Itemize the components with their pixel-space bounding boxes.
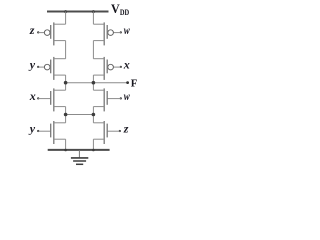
pmos z (row 1 left) [44,22,65,45]
nmos w (row 3 right) [93,88,107,111]
node bullet y row4 left [37,130,39,132]
wire pmos w drain to pmos x source [92,41,94,59]
ground symbol [71,150,88,164]
junction node F right [92,81,96,85]
wire gate lead x row2 [113,66,121,68]
svg-text:w: w [124,89,131,103]
wire gate lead x row3 [38,98,51,100]
wire pmos y drain down through node F [65,75,67,90]
nmos y (row 4 left) [51,121,66,144]
wire gate lead z row1 [38,32,44,34]
node bullet w row1 right [120,31,122,33]
pmos x (row 2 right) [93,57,113,80]
wire cross link between nmos branches [66,114,94,116]
svg-text:x: x [29,89,36,103]
node bullet x row2 right [120,66,122,68]
wire nmos x source down through cross link [65,107,67,123]
junction node F left [64,81,68,85]
svg-text:w: w [124,23,131,37]
svg-text:F: F [131,77,138,89]
wire nmos w source down through cross link [92,107,94,123]
junction ground rail left [64,149,67,152]
ground rail [48,149,110,151]
svg-text:V: V [111,1,120,16]
junction cross link left [64,113,68,117]
wire gate lead y row2 [38,66,44,68]
svg-text:z: z [29,23,35,37]
nmos x (row 3 left) [51,88,66,111]
svg-text:y: y [28,58,36,72]
svg-text:z: z [123,122,129,136]
wire nmos y source to ground rail [65,139,67,150]
terminal bullet F [126,81,129,84]
wire VDD to pmos w source [92,12,94,25]
wire gate lead y row4 [38,130,51,132]
junction on VDD rail left [64,10,67,13]
power rail VDD [47,11,109,13]
node bullet y row2 left [37,66,39,68]
nmos z (row 4 right) [93,121,107,144]
pmos y (row 2 left) [44,57,65,80]
wire pmos z drain to pmos y source [65,41,67,59]
svg-text:DD: DD [120,8,129,17]
node F wire [66,82,128,84]
pmos w (row 1 right) [93,22,113,45]
wire VDD to pmos z source [65,12,67,25]
node bullet z row4 right [119,130,121,132]
node bullet z row1 left [37,31,39,33]
junction ground rail right [92,149,95,152]
wire pmos x drain down through node F [92,75,94,90]
wire gate lead z row4 [107,130,120,132]
svg-text:x: x [123,58,130,72]
wire gate lead w row3 [107,98,121,100]
junction cross link right [92,113,96,117]
node bullet x row3 left [37,97,39,99]
node bullet w row3 right [120,97,122,99]
wire gate lead w row1 [113,32,121,34]
junction on VDD rail right [92,10,95,13]
wire nmos z source to ground rail [92,139,94,150]
svg-text:y: y [28,122,36,136]
